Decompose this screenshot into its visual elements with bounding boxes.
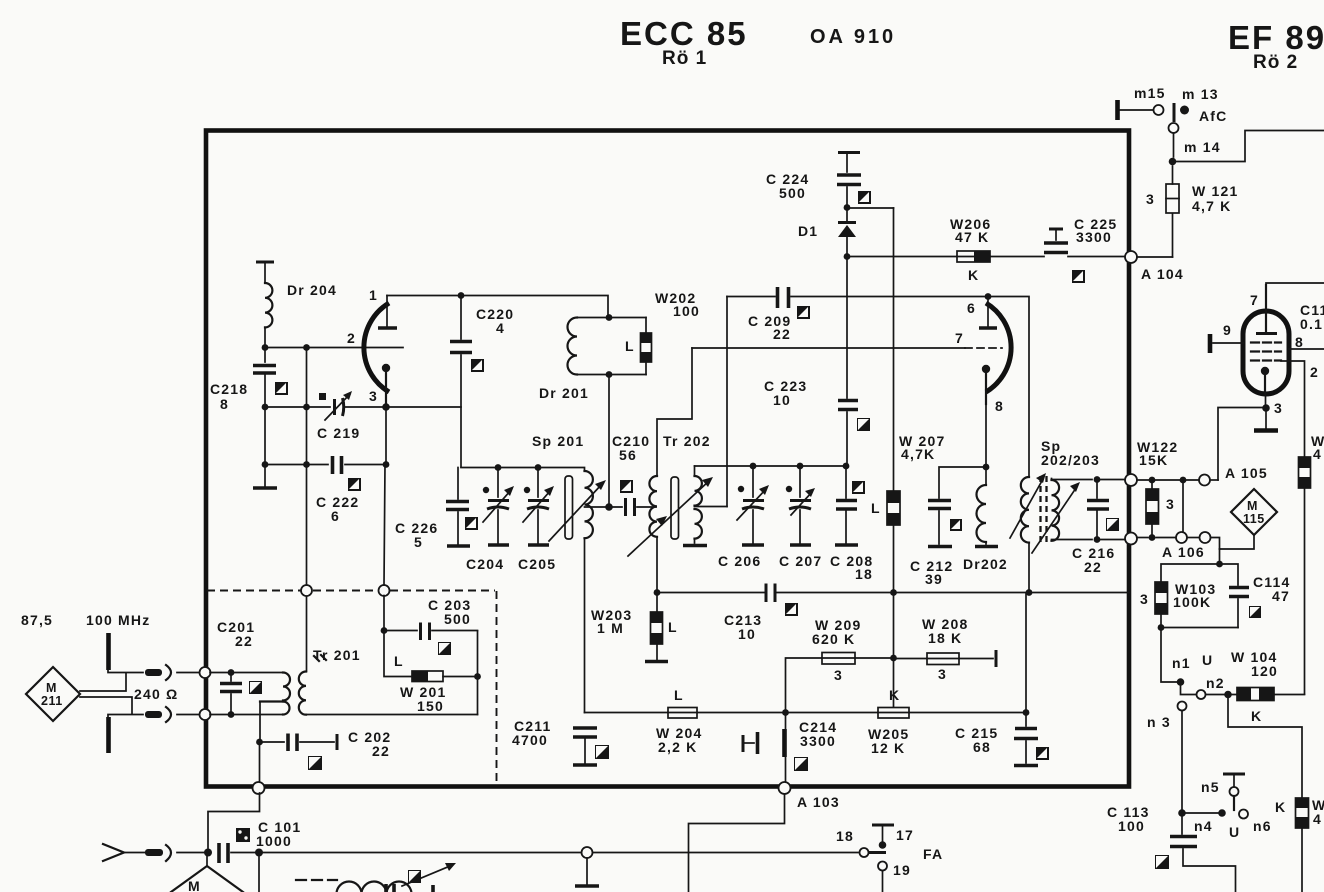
triode left pin1 anode: [369, 287, 397, 328]
wire Tr201 tap down to C202 node: [259, 702, 261, 743]
terminal A104 circle on border: [1125, 251, 1184, 282]
triode ECC85 left envelope: [364, 303, 389, 392]
resistor W209 620K: [786, 617, 894, 713]
label W202 100: [655, 290, 700, 319]
node n4: [1194, 809, 1226, 834]
svg-text:n4: n4: [1194, 818, 1213, 834]
tolerance mark C213: [785, 603, 798, 616]
capacitor C213 10 inline: [724, 584, 775, 643]
node C216 top: [1094, 476, 1101, 483]
svg-text:8: 8: [220, 396, 229, 412]
bottom fragment dashes: [296, 879, 337, 881]
tolerance mark C225: [1072, 270, 1085, 283]
antenna terminal 87.5-100MHz labels: [21, 612, 150, 628]
wire m14 to top right: [1173, 131, 1324, 162]
svg-text:K: K: [1251, 708, 1262, 724]
anode rail right triode y296: [727, 296, 988, 298]
node anode rail right triode: [985, 293, 992, 300]
svg-text:18: 18: [836, 828, 854, 844]
svg-text:Tr 202: Tr 202: [663, 433, 711, 449]
resistor W205 12K: [868, 687, 909, 756]
ground bar under C218: [253, 486, 277, 490]
capacitor C209 22: [748, 287, 791, 342]
transformer Tr202 core: [671, 477, 679, 539]
tolerance mark C218: [275, 382, 288, 395]
node C201 bottom: [228, 711, 235, 718]
svg-text:K: K: [889, 687, 900, 703]
switch FA contact 19: [878, 846, 943, 892]
node m14: [1169, 158, 1177, 166]
EF89 pin2 wire: [1281, 361, 1319, 457]
svg-text:120: 120: [1251, 663, 1278, 679]
node D1 anode: [844, 253, 851, 260]
node C203 left: [381, 627, 388, 634]
svg-text:211: 211: [41, 694, 63, 708]
tolerance mark C226: [465, 517, 478, 530]
svg-text:n5: n5: [1201, 779, 1220, 795]
wire loop bottom: [1161, 627, 1238, 629]
svg-text:D1: D1: [798, 223, 818, 239]
tolerance mark C209: [797, 306, 810, 319]
svg-text:M: M: [1247, 499, 1258, 513]
node grid line left: [262, 344, 269, 351]
svg-text:1000: 1000: [256, 833, 292, 849]
wire x384 down to C203 node: [383, 596, 385, 632]
node C224 bottom: [844, 204, 851, 211]
svg-text:10: 10: [738, 626, 756, 642]
svg-text:500: 500: [779, 185, 806, 201]
resistor W206 47K: [950, 216, 1044, 283]
wire n3 column: [1181, 711, 1183, 814]
M115 meter symbol: [1231, 489, 1277, 535]
coil Sp202/203 secondary: [1052, 479, 1060, 541]
svg-text:22: 22: [1084, 559, 1102, 575]
svg-text:18: 18: [855, 566, 873, 582]
crossing circle dashed line x307: [301, 585, 312, 596]
bottom fragment tolerance mark: [408, 870, 421, 883]
capacitor C201 22: [217, 619, 255, 715]
node C220 top: [458, 292, 465, 299]
svg-text:A 106: A 106: [1162, 544, 1205, 560]
wire input top rail to Tr201: [210, 672, 283, 674]
tolerance mark C223: [857, 418, 870, 431]
node C206 top: [750, 463, 757, 470]
node antenna junction: [204, 849, 212, 857]
terminal n5: [1201, 774, 1245, 810]
svg-text:8: 8: [1295, 334, 1304, 350]
trimmer C219: [265, 391, 386, 441]
terminal A105 circle: [1199, 465, 1268, 486]
switch FA contact 18: [836, 828, 886, 857]
trimmer C206: [718, 466, 769, 569]
wire chassis link from border circle: [208, 793, 260, 848]
wire Tr201 secondary bottom to C203 loop: [306, 714, 478, 716]
svg-text:C218: C218: [210, 381, 248, 397]
coil Sp201 winding and core: [532, 433, 606, 541]
svg-text:n2: n2: [1206, 675, 1225, 691]
node W209 rail: [782, 709, 789, 716]
wire n2 to W104: [1206, 694, 1237, 696]
M ground symbol lower: [171, 856, 243, 892]
border circle lower right: [1125, 533, 1137, 545]
node W201 right: [474, 673, 481, 680]
svg-text:0.1: 0.1: [1300, 316, 1323, 332]
svg-text:240 Ω: 240 Ω: [134, 686, 178, 702]
terminal A103 circle: [779, 782, 840, 810]
svg-text:3: 3: [834, 667, 843, 683]
dashed oscillator box right edge: [496, 591, 498, 784]
svg-text:K: K: [1275, 799, 1286, 815]
node C208 top: [843, 463, 850, 470]
feeder entry circle lower: [200, 709, 211, 720]
wire C224 node to W207 column: [847, 207, 894, 209]
svg-text:2: 2: [347, 330, 356, 346]
triode right pin6 anode: [967, 297, 997, 329]
upper feeder plug: [145, 665, 201, 680]
svg-text:3: 3: [369, 388, 378, 404]
wire x1183 down to A106 circle: [1182, 480, 1184, 532]
svg-text:W 121: W 121: [1192, 183, 1238, 199]
SEC:TITLES: [620, 15, 1324, 73]
svg-text:C 207: C 207: [779, 553, 822, 569]
arrows through Sp202/203: [1010, 473, 1080, 553]
capacitor C223 10: [764, 378, 858, 466]
tolerance mark C114: [1249, 606, 1261, 618]
transformer Tr201 secondary winding: [299, 655, 326, 715]
wire secondary bottom: [1052, 540, 1093, 541]
svg-text:4: 4: [1313, 811, 1322, 827]
tolerance mark C202: [308, 756, 322, 770]
svg-text:3: 3: [938, 666, 947, 682]
svg-text:A 104: A 104: [1141, 266, 1184, 282]
grid wire pin 2: [265, 330, 403, 348]
node n3 bottom: [1178, 809, 1186, 817]
terminal n6 circle: [1229, 810, 1272, 841]
dashed oscillator box top edge: [207, 590, 495, 592]
rail y712: [585, 712, 1027, 714]
node Sp201 tap x609: [605, 503, 613, 511]
svg-text:22: 22: [773, 326, 791, 342]
wire n2 branch to right column: [1228, 695, 1302, 799]
wire C218 node down: [264, 407, 266, 487]
svg-text:m 13: m 13: [1182, 86, 1219, 102]
tolerance mark C214: [794, 757, 808, 771]
node pin3 x307: [303, 404, 310, 411]
node Dr201 bottom: [606, 371, 613, 378]
svg-text:K: K: [968, 267, 979, 283]
wire loop top: [1161, 549, 1238, 585]
node C215 rail: [1023, 709, 1030, 716]
svg-text:68: 68: [973, 739, 991, 755]
resistor W201 150: [384, 631, 478, 715]
node C204 top: [495, 464, 502, 471]
svg-text:ECC 85: ECC 85: [620, 15, 748, 52]
label C116 cut: [1300, 302, 1324, 332]
triode right cathode pin8: [982, 365, 1004, 414]
inline terminal circle bottom wire: [575, 847, 599, 886]
svg-text:Dr 204: Dr 204: [287, 282, 337, 298]
wire n1 column: [1161, 628, 1213, 683]
rail C206 y466: [695, 465, 847, 467]
EF89 pin9 grid terminal: [1210, 322, 1243, 353]
arrow through Tr202: [628, 477, 713, 556]
choke Dr202: [963, 467, 1008, 572]
tolerance mark C201: [249, 681, 262, 694]
svg-text:Sp 201: Sp 201: [532, 433, 584, 449]
wire A103 drop: [689, 794, 785, 892]
wire riser x307 above dashed: [306, 348, 308, 586]
resistor W204 2.2K: [656, 687, 702, 755]
node W209 W208 junction: [890, 655, 897, 662]
capacitor C224 500: [766, 153, 861, 208]
tolerance mark C113: [1155, 855, 1169, 869]
node loop top: [1216, 561, 1223, 568]
wire input bottom rail to Tr201: [210, 714, 283, 716]
svg-text:19: 19: [893, 862, 911, 878]
svg-text:U: U: [1202, 652, 1213, 668]
wire A105 line: [1137, 479, 1218, 481]
svg-text:9: 9: [1223, 322, 1232, 338]
wire Tr201 secondary top riser: [306, 596, 308, 672]
node Dr201 top: [606, 314, 613, 321]
node C202 tap: [256, 739, 263, 746]
svg-text:100K: 100K: [1173, 594, 1211, 610]
svg-text:10: 10: [773, 392, 791, 408]
svg-text:100: 100: [1118, 818, 1145, 834]
tolerance mark C211: [595, 745, 609, 759]
tolerance mark C215: [1036, 747, 1049, 760]
svg-text:22: 22: [235, 633, 253, 649]
wire C216 top to border circle: [1100, 479, 1125, 481]
EF89 grids: [1251, 343, 1281, 361]
svg-text:C 219: C 219: [317, 425, 360, 441]
border circle upper right: [1125, 474, 1137, 486]
capacitor C208 18: [830, 466, 873, 582]
long bottom wire: [231, 852, 858, 854]
wire cathode column x386: [384, 407, 386, 585]
svg-text:4700: 4700: [512, 732, 548, 748]
svg-text:202/203: 202/203: [1041, 452, 1100, 468]
svg-text:1: 1: [369, 287, 378, 303]
wire node to C212: [939, 467, 986, 498]
node x307 on grid wire: [303, 344, 310, 351]
svg-text:U: U: [1229, 824, 1240, 840]
svg-text:12 K: 12 K: [871, 740, 905, 756]
svg-text:7: 7: [1250, 292, 1259, 308]
svg-text:500: 500: [444, 611, 471, 627]
svg-text:6: 6: [967, 300, 976, 316]
node n2 branch: [1224, 691, 1232, 699]
resistor W121 4.7K: [1146, 166, 1238, 257]
svg-text:87,5: 87,5: [21, 612, 53, 628]
node EF89 pin3: [1262, 400, 1283, 416]
wire Tr202 tap to C209 column: [695, 506, 728, 508]
svg-text:8: 8: [995, 398, 1004, 414]
wire anode rail corner down to Sp202: [988, 297, 1029, 478]
wire M115 to loop: [1220, 535, 1255, 549]
svg-text:4,7 K: 4,7 K: [1192, 198, 1231, 214]
svg-text:A 103: A 103: [797, 794, 840, 810]
svg-text:m 14: m 14: [1184, 139, 1221, 155]
resistor W104 120: [1231, 649, 1305, 724]
svg-text:n1: n1: [1172, 655, 1191, 671]
resistor W105 right edge cut: [1275, 797, 1324, 892]
terminal m13 AfC: [1174, 86, 1227, 124]
svg-text:3300: 3300: [1076, 229, 1112, 245]
resistor W207 4.7K column: [871, 208, 945, 593]
tolerance mark C224: [858, 191, 871, 204]
wire D1 node to W206: [847, 256, 957, 258]
svg-text:3300: 3300: [800, 733, 836, 749]
capacitor C214 3300: [743, 719, 837, 757]
svg-text:A 105: A 105: [1225, 465, 1268, 481]
tolerance mark C222: [348, 478, 361, 491]
wire C223 column: [846, 257, 848, 399]
wire Dr201 down to Sp201 tap: [608, 375, 610, 508]
transformer Tr201 primary winding: [260, 647, 361, 715]
tolerance mark C216: [1106, 518, 1119, 531]
wire pin8 down to Dr202 node: [985, 404, 987, 467]
node pin8 bottom: [983, 464, 990, 471]
trimmer C207: [779, 466, 822, 569]
node W122 top: [1149, 477, 1156, 484]
svg-text:3: 3: [1140, 591, 1149, 607]
anode rail y295: [387, 296, 608, 318]
svg-text:3: 3: [1166, 496, 1175, 512]
capacitor C211 4700: [512, 718, 597, 765]
node y464 x386: [383, 461, 390, 468]
svg-text:OA 910: OA 910: [810, 26, 896, 48]
svg-text:4: 4: [1313, 446, 1322, 462]
svg-text:100: 100: [673, 303, 700, 319]
svg-text:4,7K: 4,7K: [901, 446, 935, 462]
svg-text:C 206: C 206: [718, 553, 761, 569]
transformer Tr202 right winding: [683, 466, 707, 546]
EF89 pin7 anode: [1250, 283, 1324, 334]
svg-text:Rö 2: Rö 2: [1253, 52, 1298, 73]
svg-text:L: L: [625, 338, 635, 354]
coil Sp201 top rail: [461, 468, 585, 472]
svg-text:n 3: n 3: [1147, 714, 1171, 730]
node x1183 top: [1180, 477, 1187, 484]
wire Sp201 bottom to C211: [584, 538, 586, 712]
capacitor C202 22: [262, 729, 391, 759]
node C201 top: [228, 669, 235, 676]
svg-text:17: 17: [896, 827, 914, 843]
tolerance mark C101: [236, 828, 250, 842]
choke Dr201 with core L: [539, 318, 652, 402]
wire n1 to n2 line: [1181, 682, 1197, 695]
svg-text:39: 39: [925, 571, 943, 587]
node y464 left: [262, 461, 269, 468]
transformer Tr202 left winding: [649, 348, 710, 593]
svg-text:M: M: [46, 681, 57, 695]
svg-text:L: L: [394, 653, 404, 669]
bottom fragment plates: [386, 884, 433, 892]
capacitor C225 3300: [1044, 216, 1126, 257]
svg-text:150: 150: [417, 698, 444, 714]
svg-text:2,2 K: 2,2 K: [658, 739, 697, 755]
wire column C209 x727: [726, 297, 728, 507]
grid wire pin7: [692, 330, 1002, 348]
terminal m14 circle: [1169, 123, 1179, 157]
svg-text:15K: 15K: [1139, 452, 1168, 468]
svg-text:AfC: AfC: [1199, 108, 1227, 124]
crossing circle dashed line x384: [379, 585, 390, 596]
svg-text:L: L: [674, 687, 684, 703]
node loop bottom: [1158, 624, 1165, 631]
svg-text:FA: FA: [923, 846, 943, 862]
capacitor C218 8: [210, 366, 276, 413]
diode D1 OA910: [798, 208, 856, 257]
svg-text:4: 4: [496, 320, 505, 336]
choke Dr204: [256, 262, 337, 362]
node Sp202 rail: [1026, 589, 1033, 596]
coil Sp202/203 primary: [1021, 438, 1100, 593]
feeder entry circle upper: [200, 667, 211, 678]
240 ohm twin lead: [80, 674, 178, 715]
svg-text:n6: n6: [1253, 818, 1272, 834]
capacitor C215 68: [955, 713, 1038, 766]
node C216 bottom: [1094, 536, 1101, 543]
switch FA contact 17: [872, 825, 914, 849]
svg-text:22: 22: [372, 743, 390, 759]
tolerance mark C208: [852, 481, 865, 494]
svg-text:620 K: 620 K: [812, 631, 855, 647]
dipole antenna lower bar: [108, 715, 143, 754]
terminal m15: [1118, 85, 1166, 120]
svg-text:m15: m15: [1134, 85, 1166, 101]
resistor W103 100K: [1140, 581, 1216, 628]
wire x1026 rail to rail: [1025, 593, 1027, 713]
node W122 bottom: [1149, 534, 1156, 541]
svg-text:5: 5: [414, 534, 423, 550]
main shield box border: [206, 131, 1129, 787]
node C205 top: [535, 464, 542, 471]
svg-text:1 M: 1 M: [597, 620, 624, 636]
trimmer C205: [518, 468, 556, 573]
wire loop right side up: [477, 631, 479, 715]
svg-text:EF 89: EF 89: [1228, 19, 1324, 56]
wire secondary top to border: [1052, 479, 1093, 481]
capacitor C203 500: [384, 597, 478, 640]
capacitor C210 56: [612, 433, 656, 516]
svg-text:Dr 201: Dr 201: [539, 385, 589, 401]
svg-text:C205: C205: [518, 556, 556, 572]
terminal A106 circle right: [1162, 532, 1211, 560]
resistor W208 18K: [894, 616, 997, 682]
bottom fragment coil: [337, 882, 412, 892]
wire tap node to chassis circle: [259, 742, 261, 783]
trimmer C204: [466, 468, 514, 573]
svg-text:47 K: 47 K: [955, 229, 989, 245]
capacitor C114 47: [1229, 574, 1291, 628]
svg-text:6: 6: [331, 508, 340, 524]
node C101 right: [255, 849, 263, 857]
triode left cathode: [369, 364, 390, 404]
EF89 cathode: [1261, 367, 1269, 405]
EF89 pin8 wire: [1289, 334, 1324, 350]
resistor W122 15K: [1137, 439, 1178, 537]
node C218 bottom: [262, 404, 269, 411]
svg-text:3: 3: [1146, 191, 1155, 207]
chassis circle on bottom border: [253, 782, 265, 794]
pentode EF89 envelope: [1243, 311, 1289, 394]
capacitor C220 4: [450, 296, 514, 468]
wire W207 column lower: [893, 593, 895, 709]
svg-text:18 K: 18 K: [928, 630, 962, 646]
wire n4 line: [1182, 812, 1219, 814]
